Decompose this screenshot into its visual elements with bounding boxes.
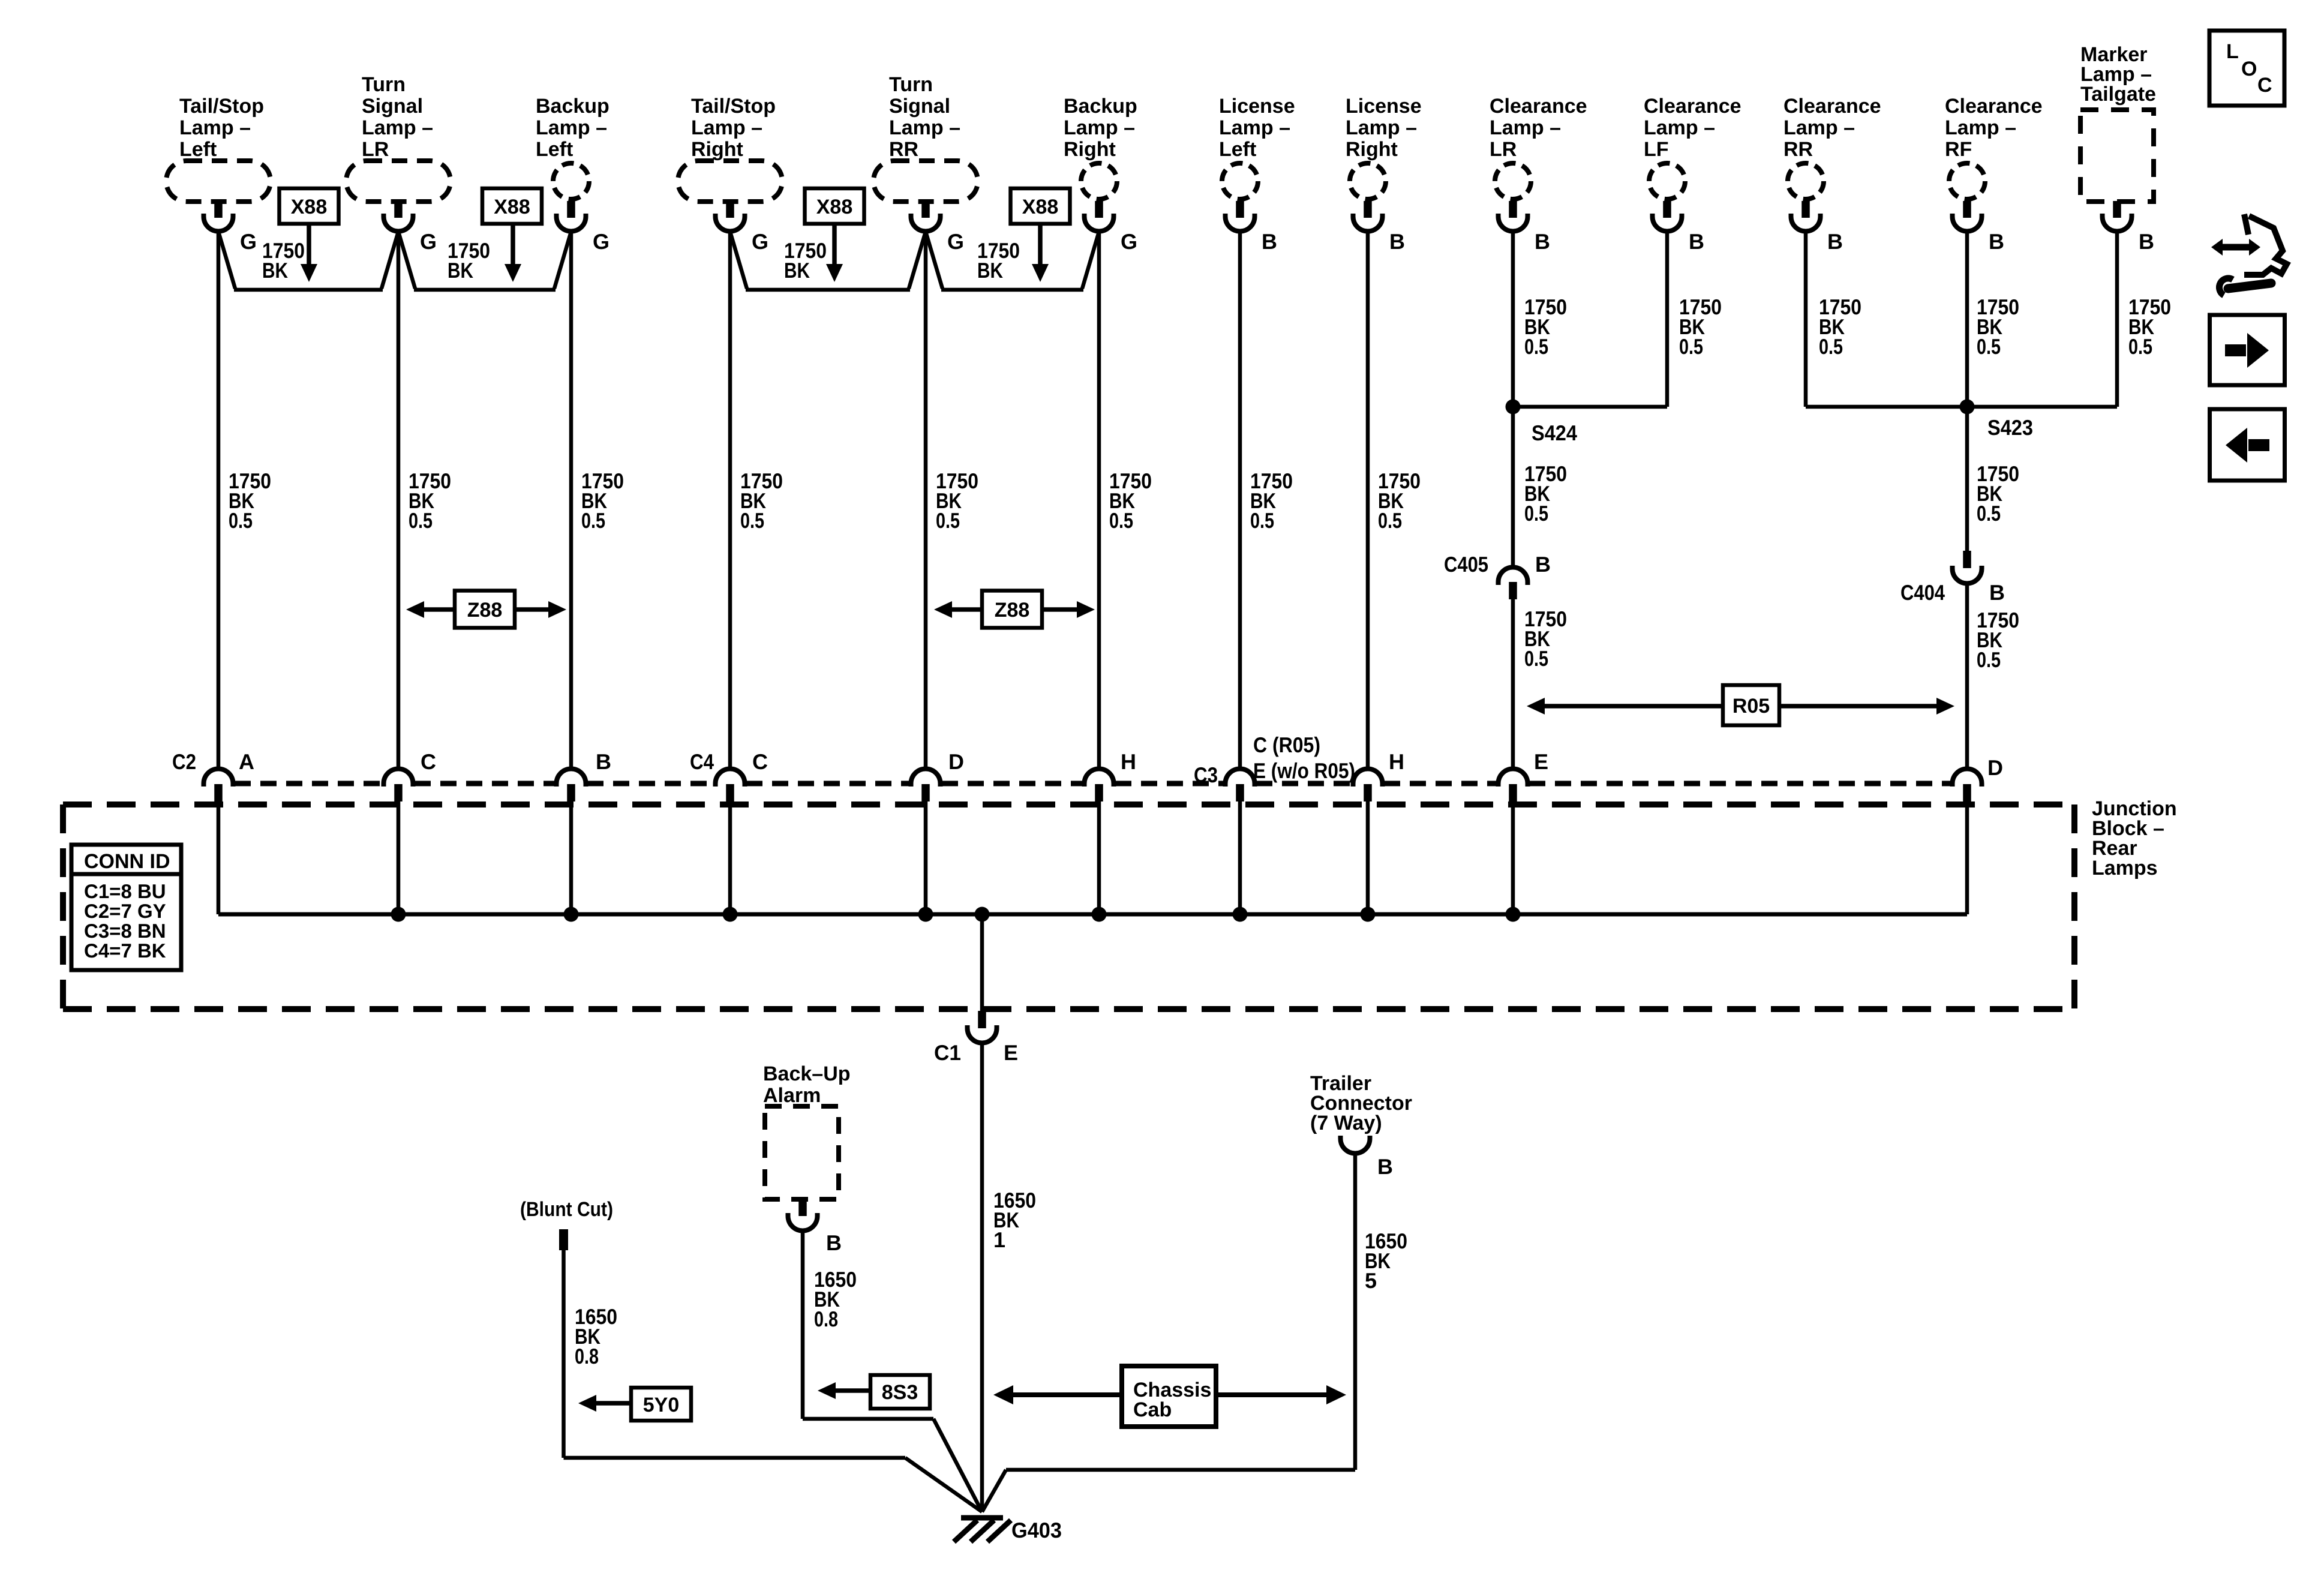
wire: Turn Signal RR vertical drop to junction block (924, 231, 928, 769)
connector pin at Clearance Lamp - LR (1499, 201, 1528, 232)
wire: C1 E to ground G403 (980, 1043, 984, 1512)
splice S424 junction dot (1506, 400, 1521, 415)
connector C2 cavity A arc and pin (204, 769, 233, 802)
connector C3 cavity E arc and pin (1499, 769, 1528, 802)
svg-text:B: B (1689, 229, 1704, 254)
lamp Clearance Lamp - LR label (1490, 95, 1587, 161)
lamp Clearance Lamp - RF outline (1949, 163, 1985, 199)
svg-text:C4=7 BK: C4=7 BK (84, 939, 166, 962)
svg-text:B: B (826, 1230, 842, 1255)
svg-text:Turn: Turn (889, 73, 933, 96)
arrow right from R05 callout (1779, 698, 1954, 715)
svg-text:R05: R05 (1733, 695, 1770, 718)
svg-text:H: H (1389, 749, 1404, 774)
svg-text:RR: RR (1783, 138, 1813, 161)
connector pin at Backup Lamp - Right (1085, 201, 1114, 232)
svg-text:Lamp –: Lamp – (1346, 116, 1417, 139)
lamp Backup Lamp - Left label (536, 95, 609, 161)
svg-text:License: License (1346, 95, 1422, 118)
svg-text:B: B (1827, 229, 1843, 254)
wire: X88 harness segment between Tail/Stop Left and Turn Signal LR (234, 288, 383, 292)
svg-text:Backup: Backup (536, 95, 609, 118)
connector pin at Tail/Stop Lamp - Right (716, 201, 745, 232)
wire: Clearance LR from C405 to junction block (1511, 599, 1515, 769)
svg-text:Alarm: Alarm (763, 1084, 821, 1107)
svg-text:0.5: 0.5 (936, 508, 960, 533)
svg-text:Left: Left (1219, 138, 1256, 161)
wire: Trailer Connector down (1353, 1152, 1358, 1470)
svg-text:L: L (2226, 40, 2239, 63)
svg-text:0.5: 0.5 (1524, 646, 1548, 671)
label R05 callout box (1723, 685, 1779, 725)
connector pin at Turn Signal Lamp - LR (384, 201, 413, 232)
svg-text:(7 Way): (7 Way) (1310, 1112, 1382, 1134)
junction block dashed outline (63, 804, 2074, 1009)
svg-text:BK: BK (784, 258, 810, 283)
wire: internal stub License Left to ground bus (1238, 801, 1242, 914)
lamp Clearance Lamp - LF outline (1649, 163, 1685, 199)
connector pin at License Lamp - Right (1353, 201, 1383, 232)
lamp Tail/Stop Lamp - Left outline (166, 161, 271, 202)
svg-text:Z88: Z88 (995, 599, 1030, 622)
wire: blunt cut diagonal into ground G403 (905, 1458, 982, 1512)
svg-text:0.5: 0.5 (2128, 334, 2152, 359)
svg-text:0.5: 0.5 (1977, 334, 2001, 359)
svg-text:B: B (1535, 552, 1551, 577)
lamp Tail/Stop Lamp - Right label (691, 95, 776, 161)
arrow from X88 callout 4 (1032, 224, 1049, 282)
connector pin at Clearance Lamp - LF (1653, 201, 1682, 232)
svg-text:C1: C1 (934, 1040, 961, 1065)
lamp Turn Signal Lamp - LR label (362, 73, 433, 161)
wire: Tail/Stop Left branch diagonal to X88 segment (218, 232, 235, 289)
svg-text:Lamp –: Lamp – (1219, 116, 1290, 139)
label X88 callout 3 box (805, 188, 864, 224)
svg-text:X88: X88 (494, 196, 530, 218)
svg-text:0.5: 0.5 (581, 508, 605, 533)
lamp License Lamp - Right outline (1350, 163, 1386, 199)
lamp Turn Signal Lamp - RR outline (873, 161, 978, 202)
connector C2 cavity B arc and pin (557, 769, 586, 802)
connector pin at Marker Lamp - Tailgate (2103, 201, 2132, 232)
connector pin at License Lamp - Left (1226, 201, 1255, 232)
svg-text:C3=8 BN: C3=8 BN (84, 920, 166, 942)
wire: X88 harness segment between Turn Signal RR and Backup Right (941, 288, 1083, 292)
svg-text:B: B (596, 749, 611, 774)
svg-text:0.5: 0.5 (740, 508, 764, 533)
svg-text:E: E (1534, 749, 1548, 774)
wire label 1750 BK 0.5 (Clearance LR below S424) (1524, 461, 1567, 526)
svg-text:Tailgate: Tailgate (2080, 83, 2156, 106)
connector pin at Backup Lamp - Left (557, 201, 586, 232)
svg-text:Signal: Signal (889, 95, 950, 118)
CONN ID table box (71, 845, 181, 970)
label 5Y0 callout box (631, 1388, 691, 1421)
wire: C1 drop from ground bus through block bottom (980, 914, 984, 1011)
wire: X88 harness segment between Turn Signal LR and Backup Left (414, 288, 556, 292)
connector C405 inline (arc above, pin below) (1499, 567, 1528, 599)
svg-text:A: A (239, 749, 254, 774)
lamp Backup Lamp - Left outline (553, 163, 589, 199)
wire label 1750 BK 0.5 (Clearance RR) (1819, 295, 1861, 359)
lamp Clearance Lamp - RF label (1945, 95, 2043, 161)
lamp Clearance Lamp - RR label (1783, 95, 1881, 161)
connector C2 cavity C arc and pin (384, 769, 413, 802)
LOC legend box (2209, 31, 2284, 106)
svg-text:B: B (1989, 229, 2004, 254)
label Junction Block - Rear Lamps (2092, 797, 2177, 879)
svg-text:Lamps: Lamps (2092, 857, 2158, 879)
svg-text:C4: C4 (690, 749, 714, 774)
svg-text:G: G (752, 229, 768, 254)
connector C1 cavity E pin and cup (968, 1011, 997, 1043)
wire label 1750 BK 0.5 (Turn Signal LR) (409, 469, 451, 533)
svg-text:Left: Left (179, 138, 217, 161)
wire: Clearance RF from C404 to junction block (1965, 583, 1969, 769)
svg-text:5Y0: 5Y0 (643, 1394, 680, 1416)
svg-text:0.5: 0.5 (1524, 501, 1548, 526)
svg-text:Clearance: Clearance (1490, 95, 1587, 118)
svg-text:Lamp –: Lamp – (691, 116, 762, 139)
svg-text:X88: X88 (1022, 196, 1059, 218)
svg-text:Lamp –: Lamp – (1783, 116, 1855, 139)
svg-text:G: G (947, 229, 964, 254)
arrow left from R05 callout (1527, 698, 1723, 715)
svg-text:Clearance: Clearance (1644, 95, 1742, 118)
lamp Turn Signal Lamp - LR outline (346, 161, 451, 202)
legend box arrow left (2210, 409, 2285, 481)
arrow right from Z88 callout 2 (1042, 601, 1095, 618)
connector pin at Tail/Stop Lamp - Left (204, 201, 233, 232)
wire label 1750 BK 0.5 (Backup Left) (581, 469, 624, 533)
arrow left from 8S3 callout (818, 1382, 870, 1399)
svg-text:0.5: 0.5 (409, 508, 433, 533)
arrow right from Chassis Cab box (1216, 1385, 1346, 1404)
svg-text:Cab: Cab (1133, 1398, 1172, 1421)
wire label 1750 BK 0.5 (Tail/Stop Left) (229, 469, 271, 533)
svg-text:8S3: 8S3 (882, 1381, 918, 1404)
svg-text:O: O (2241, 58, 2257, 80)
svg-text:0.5: 0.5 (229, 508, 253, 533)
svg-text:C (R05): C (R05) (1253, 733, 1320, 757)
wire: Clearance RF from S423 down to C404 (1965, 407, 1969, 551)
lamp Clearance Lamp - LF label (1644, 95, 1742, 161)
svg-text:Lamp –: Lamp – (362, 116, 433, 139)
label Z88 callout 1 box (455, 591, 515, 628)
svg-text:0.5: 0.5 (1819, 334, 1843, 359)
wire: License Left vertical drop to junction block (1238, 231, 1242, 769)
wire: internal stub Tail/Stop Left to ground bus (217, 801, 221, 914)
wire: internal stub Clearance LR to ground bus (1511, 801, 1515, 914)
wire: Backup Right vertical drop to junction block (1097, 231, 1101, 769)
wire: internal stub License Right to ground bus (1366, 801, 1370, 914)
component Trailer Connector label (1310, 1072, 1412, 1134)
svg-text:Backup: Backup (1064, 95, 1137, 118)
svg-text:0.5: 0.5 (1378, 508, 1402, 533)
svg-text:S423: S423 (1987, 415, 2033, 440)
ground G403 symbol (954, 1518, 1011, 1542)
arrow left from Z88 callout 1 (406, 601, 455, 618)
svg-text:0.8: 0.8 (814, 1307, 838, 1331)
svg-text:0.5: 0.5 (1977, 501, 2001, 526)
wire label 1750 BK 0.5 (Backup Right) (1109, 469, 1152, 533)
lamp Backup Lamp - Right outline (1081, 163, 1117, 199)
wire: internal stub Backup Right to ground bus (1097, 801, 1101, 914)
wire: Turn Signal LR right branch diagonal (398, 232, 415, 289)
wire label 1750 BK 0.5 (Clearance LF) (1679, 295, 1722, 359)
svg-text:G: G (240, 229, 257, 254)
svg-text:Signal: Signal (362, 95, 423, 118)
component Back-Up Alarm label (763, 1062, 851, 1107)
svg-text:Right: Right (1346, 138, 1398, 161)
connector C4 cavity H arc and pin (1085, 769, 1114, 802)
wire label 1750 BK (X88 3) (784, 238, 827, 283)
wire label 1750 BK 0.5 (License Right) (1378, 469, 1421, 533)
junction dot on bus at Turn Signal LR (391, 907, 406, 922)
wire: X88 harness segment between Tail/Stop Right and Turn Signal RR (746, 288, 910, 292)
wire: Marker Tailgate drop to splice S423 (2115, 231, 2119, 407)
svg-text:Clearance: Clearance (1783, 95, 1881, 118)
svg-text:BK: BK (977, 258, 1003, 283)
svg-text:Lamp –: Lamp – (1945, 116, 2016, 139)
label X88 callout 1 box (280, 188, 339, 224)
svg-text:G: G (420, 229, 437, 254)
svg-text:C405: C405 (1444, 552, 1488, 577)
svg-text:G403: G403 (1011, 1518, 1062, 1542)
wire label 1650 BK 1 (993, 1188, 1036, 1252)
junction dot on bus at Clearance LR (1506, 907, 1521, 922)
svg-text:Lamp –: Lamp – (889, 116, 960, 139)
wire label 1750 BK 0.5 (Clearance LR upper) (1524, 295, 1567, 359)
svg-text:5: 5 (1365, 1268, 1377, 1293)
junction dot on bus at Backup Left (564, 907, 579, 922)
lamp Marker Lamp - Tailgate outline (2080, 110, 2154, 202)
lamp Backup Lamp - Right label (1064, 95, 1137, 161)
lamp Turn Signal Lamp - RR label (889, 73, 960, 161)
label X88 callout 4 box (1011, 188, 1070, 224)
svg-text:B: B (1535, 229, 1550, 254)
junction dot on bus at License Right (1361, 907, 1376, 922)
svg-text:G: G (593, 229, 609, 254)
svg-text:Tail/Stop: Tail/Stop (691, 95, 776, 118)
svg-text:D: D (1987, 755, 2003, 780)
svg-text:0.8: 0.8 (575, 1344, 599, 1368)
svg-text:Left: Left (536, 138, 573, 161)
wire: Turn Signal RR right branch diagonal (926, 232, 942, 289)
lamp Tail/Stop Lamp - Right outline (678, 161, 782, 202)
svg-text:C2=7 GY: C2=7 GY (84, 900, 166, 922)
junction dot on bus at C1 drop (975, 907, 990, 922)
svg-text:Tail/Stop: Tail/Stop (179, 95, 264, 118)
svg-text:CONN ID: CONN ID (84, 850, 170, 873)
svg-text:E: E (1004, 1040, 1018, 1065)
wire: Backup Left branch diagonal (554, 232, 571, 289)
svg-text:0.5: 0.5 (1977, 647, 2001, 672)
lamp License Lamp - Left label (1219, 95, 1295, 161)
wire label 1650 BK 0.8 (blunt cut) (575, 1304, 617, 1368)
arrow left from Z88 callout 2 (934, 601, 982, 618)
wire label 1750 BK (X88 2) (448, 238, 490, 283)
wire: internal stub Clearance RF to ground bus (1965, 801, 1969, 914)
svg-text:B: B (1389, 229, 1405, 254)
connector C3 cavity H arc and pin (1353, 769, 1383, 802)
wire: Trailer Connector horizontal to ground diagonal (1006, 1468, 1355, 1472)
wire: Tail/Stop Right branch diagonal (730, 232, 747, 289)
component Back-Up Alarm dashed box (765, 1106, 839, 1199)
label X88 callout 2 box (482, 188, 542, 224)
svg-text:X88: X88 (816, 196, 853, 218)
arrow from X88 callout 2 (505, 224, 521, 282)
wire: Back-Up Alarm diagonal into ground G403 (933, 1419, 982, 1512)
svg-text:Lamp –: Lamp – (1490, 116, 1561, 139)
wire: Turn Signal LR vertical drop to junction block (397, 231, 401, 769)
wire label 1750 BK 0.5 (Marker Tailgate) (2128, 295, 2171, 359)
connector pin at Turn Signal Lamp - RR (911, 201, 941, 232)
svg-text:RR: RR (889, 138, 918, 161)
junction dot on bus at Turn Signal RR (918, 907, 933, 922)
wire: Tail/Stop Right vertical drop to junction block (728, 231, 732, 769)
svg-text:B: B (1262, 229, 1277, 254)
svg-text:LF: LF (1644, 138, 1669, 161)
connector pin at Back-Up Alarm (788, 1199, 818, 1231)
wire label 1750 BK 0.5 (Tail/Stop Right) (740, 469, 783, 533)
wire label 1750 BK 0.5 (License Left) (1250, 469, 1293, 533)
wire label 1750 BK 0.5 (Clearance RF below C404) (1977, 608, 2019, 672)
svg-text:B: B (1989, 580, 2005, 605)
svg-text:Back–Up: Back–Up (763, 1062, 851, 1085)
splice S423 junction dot (1960, 400, 1975, 415)
svg-text:(Blunt Cut): (Blunt Cut) (520, 1198, 613, 1221)
svg-text:C2: C2 (172, 749, 196, 774)
blunt cut terminal (559, 1229, 568, 1250)
wire label 1750 BK 0.5 (Clearance RF upper) (1977, 295, 2019, 359)
svg-text:Lamp –: Lamp – (536, 116, 607, 139)
svg-text:BK: BK (262, 258, 288, 283)
wire: blunt cut down (562, 1250, 566, 1458)
wire: Turn Signal RR left branch diagonal (909, 232, 926, 289)
wire: internal stub Turn Signal RR to ground bus (924, 801, 928, 914)
wire: internal stub Turn Signal LR to ground bus (397, 801, 401, 914)
connector C3 cavity D arc and pin (1953, 769, 1982, 802)
svg-text:X88: X88 (291, 196, 328, 218)
svg-text:LR: LR (362, 138, 389, 161)
svg-text:0.5: 0.5 (1524, 334, 1548, 359)
svg-text:C: C (752, 749, 768, 774)
wire label 1650 BK 0.8 (Back-Up Alarm) (814, 1267, 857, 1331)
label 8S3 callout box (870, 1375, 930, 1409)
svg-text:S424: S424 (1532, 421, 1577, 445)
wire: Backup Left vertical drop to junction block (569, 231, 574, 769)
svg-text:B: B (1377, 1154, 1393, 1179)
junction dot on bus at Backup Right (1092, 907, 1107, 922)
junction block connector face dotted line (235, 781, 1951, 786)
icon vehicle outline with double arrow and wrench (2218, 214, 2287, 295)
lamp License Lamp - Right label (1346, 95, 1422, 161)
lamp Tail/Stop Lamp - Left label (179, 95, 264, 161)
wire: junction block internal ground bus (218, 912, 1967, 917)
svg-text:C1=8 BU: C1=8 BU (84, 880, 166, 902)
wire label 1750 BK 0.5 (Turn Signal RR) (936, 469, 978, 533)
svg-text:Lamp –: Lamp – (179, 116, 251, 139)
arrow from X88 callout 3 (826, 224, 843, 282)
svg-text:D: D (948, 749, 964, 774)
svg-text:Lamp –: Lamp – (1644, 116, 1715, 139)
svg-text:H: H (1121, 749, 1136, 774)
svg-text:C: C (2257, 74, 2272, 97)
wire: Back-Up Alarm down (801, 1230, 805, 1419)
svg-text:Right: Right (1064, 138, 1116, 161)
svg-text:E (w/o R05): E (w/o R05) (1253, 758, 1355, 783)
connector cup at Trailer Connector (1341, 1136, 1370, 1154)
lamp Clearance Lamp - RR outline (1788, 163, 1824, 199)
connector C4 cavity D arc and pin (911, 769, 941, 802)
lamp Clearance Lamp - LR outline (1495, 163, 1531, 199)
lamp Marker Lamp - Tailgate label (2080, 43, 2156, 106)
wire: splice S424 horizontal (1513, 405, 1667, 409)
wire label 1750 BK (X88 4) (977, 238, 1020, 283)
wire label 1750 BK 0.5 (Clearance RF below S423) (1977, 461, 2019, 526)
arrow left from 5Y0 callout (578, 1395, 631, 1412)
wire: internal stub Backup Left to ground bus (569, 801, 574, 914)
wire: Clearance RR drop to splice S423 (1804, 231, 1808, 407)
wire: Clearance LR drop to C405 (1511, 231, 1515, 568)
icon double arrowheads (2211, 239, 2260, 256)
connector C404 inline (pin above, cup below) (1953, 551, 1982, 584)
wire: blunt cut horizontal to ground diagonal (564, 1456, 906, 1460)
lamp License Lamp - Left outline (1222, 163, 1258, 199)
wire: Backup Right branch diagonal (1082, 232, 1099, 289)
svg-text:LR: LR (1490, 138, 1517, 161)
label Z88 callout 2 box (982, 591, 1042, 628)
svg-text:0.5: 0.5 (1109, 508, 1133, 533)
svg-text:C: C (421, 749, 436, 774)
wire: Turn Signal LR left branch diagonal (382, 232, 398, 289)
connector C4 cavity C arc and pin (716, 769, 745, 802)
wire: Clearance LF drop to splice S424 (1665, 231, 1670, 407)
legend box arrow right (2210, 315, 2285, 385)
svg-text:C404: C404 (1900, 580, 1945, 605)
wire: Tail/Stop Left vertical drop to junction block (217, 231, 221, 769)
connector C3 cavity C/E arc and pin (1226, 769, 1255, 802)
wire: splice S423 horizontal (1806, 405, 2117, 409)
wire: License Right vertical drop to junction block (1366, 231, 1370, 769)
svg-text:G: G (1121, 229, 1137, 254)
arrow left from Chassis Cab box (993, 1385, 1122, 1404)
svg-text:BK: BK (448, 258, 473, 283)
wire label 1750 BK (X88 1) (262, 238, 305, 283)
svg-text:0.5: 0.5 (1679, 334, 1703, 359)
svg-text:Clearance: Clearance (1945, 95, 2043, 118)
connector pin at Clearance Lamp - RF (1953, 201, 1982, 232)
label Chassis Cab box (1122, 1366, 1216, 1427)
arrow right from Z88 callout 1 (515, 601, 566, 618)
svg-text:Lamp –: Lamp – (1064, 116, 1135, 139)
svg-text:C3: C3 (1194, 763, 1218, 787)
junction dot on bus at Tail/Stop Right (723, 907, 738, 922)
svg-text:0.5: 0.5 (1250, 508, 1274, 533)
wire: Trailer Connector diagonal into ground G403 (982, 1470, 1006, 1512)
arrow from X88 callout 1 (301, 224, 317, 282)
connector pin at Clearance Lamp - RR (1791, 201, 1821, 232)
wire: internal stub Tail/Stop Right to ground bus (728, 801, 732, 914)
svg-text:Z88: Z88 (467, 599, 503, 622)
svg-text:1: 1 (993, 1227, 1005, 1252)
svg-text:Right: Right (691, 138, 743, 161)
wire: Back-Up Alarm horizontal to ground diagonal (803, 1417, 933, 1421)
svg-text:RF: RF (1945, 138, 1972, 161)
wire: Clearance RF drop to splice S423 (1965, 231, 1969, 407)
junction dot on bus at License Left (1233, 907, 1248, 922)
